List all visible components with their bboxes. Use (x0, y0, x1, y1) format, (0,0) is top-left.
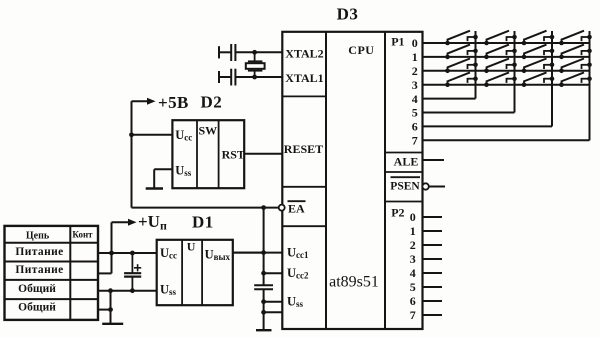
svg-text:Ucc2: Ucc2 (287, 266, 309, 281)
D3 left pin-column divider (325, 32, 327, 329)
wire ALE stub (423, 159, 445, 161)
+5V arrowhead (147, 98, 156, 105)
wire P2.1 stub (423, 230, 443, 232)
svg-text:CPU: CPU (348, 43, 374, 57)
svg-text:0: 0 (412, 36, 418, 50)
svg-text:Uвых: Uвых (205, 247, 231, 262)
table row line (5, 261, 99, 263)
wire +5V arrow stem (132, 100, 150, 102)
D1 inner divider 2 (201, 240, 203, 305)
node C3 bottom junction (130, 288, 135, 293)
wire P2.4 stub (423, 272, 443, 274)
node common row 2 junction (108, 307, 113, 312)
D3 left column divider below EA (282, 225, 326, 227)
svg-text:Uss: Uss (175, 163, 192, 178)
svg-text:+5В: +5В (158, 93, 189, 112)
svg-text:SW: SW (199, 124, 218, 138)
table column divider (69, 226, 71, 320)
wire row P1.0 to key matrix (423, 42, 590, 44)
key switch S7 (row P1.1, col 3) (522, 45, 555, 60)
wire Ucc1 pin (233, 252, 282, 254)
table row line (5, 279, 99, 281)
capacitor C1 plates (230, 44, 232, 61)
table row line (5, 298, 99, 300)
svg-text:Цепь: Цепь (26, 230, 50, 241)
svg-text:7: 7 (410, 308, 416, 322)
wire column bus 3 (551, 31, 553, 126)
svg-text:RESET: RESET (284, 142, 323, 156)
wire P2.6 stub (423, 300, 443, 302)
table row line (5, 242, 99, 244)
svg-text:P2: P2 (391, 206, 404, 220)
svg-text:Ucc: Ucc (160, 246, 177, 261)
svg-text:RST: RST (222, 148, 245, 162)
svg-text:6: 6 (412, 120, 418, 134)
wire supply row 1 (Питание) to D1 Ucc (98, 252, 157, 254)
crystal ZQ1 body (246, 63, 265, 69)
wire power rail vertical (upper) (263, 208, 265, 286)
key switch S6 (row P1.1, col 2) (484, 45, 517, 60)
wire D2 Ucc to +5V rail (132, 134, 173, 136)
key switch S5 (row P1.1, col 1) (445, 45, 478, 60)
crystal ZQ1 top plate (248, 60, 263, 62)
svg-text:at89s51: at89s51 (329, 274, 379, 291)
svg-text:1: 1 (410, 224, 416, 238)
svg-text:3: 3 (412, 78, 418, 92)
svg-text:EA: EA (288, 202, 305, 216)
wire Uss pin upper (264, 301, 283, 303)
svg-text:D2: D2 (201, 93, 223, 112)
svg-text:5: 5 (412, 106, 418, 120)
wire column bus 2 (514, 31, 516, 113)
D2 inner divider 1 (196, 120, 198, 188)
svg-text:Конт: Конт (72, 230, 93, 240)
D3 right column divider above ALE (385, 152, 423, 154)
node Uvyh/Ucc1 junction (261, 250, 266, 255)
C2 common terminal bar (218, 71, 220, 83)
key switch S12 (row P1.2, col 4) (559, 59, 592, 74)
wire row P1.4 column return (423, 98, 476, 100)
wire P2.0 stub (423, 216, 443, 218)
wire P2.3 stub (423, 258, 443, 260)
wire PSEN stub (429, 186, 445, 188)
svg-text:Ucc1: Ucc1 (287, 246, 309, 261)
connector table outline (5, 226, 99, 320)
wire row P1.5 column return (423, 112, 515, 114)
svg-text:Питание: Питание (15, 264, 63, 276)
svg-text:5: 5 (410, 280, 416, 294)
key switch S8 (row P1.1, col 4) (559, 45, 592, 60)
wire row P1.1 to key matrix (423, 56, 590, 58)
capacitor C3 plus sign (134, 267, 141, 269)
wire common row 1 (Общий) to D1 Uss (98, 290, 157, 292)
key switch S1 (row P1.0, col 1) (445, 31, 478, 46)
IC D3 CPU at89s51 box outline (282, 32, 422, 329)
key switch S13 (row P1.3, col 1) (445, 72, 478, 87)
node common vertical junction (108, 288, 113, 293)
key switch S14 (row P1.3, col 2) (484, 72, 517, 87)
crystal ZQ1 bottom lead (254, 71, 256, 77)
svg-text:Общий: Общий (18, 302, 56, 314)
wire C1 to common (219, 51, 231, 53)
crystal ZQ1 top lead (254, 52, 256, 61)
wire common row 2 (Общий) (98, 309, 111, 311)
svg-text:7: 7 (412, 134, 418, 148)
capacitor C3 plate 1 (124, 272, 141, 274)
wire row P1.3 to key matrix (423, 84, 590, 86)
IC D2 box outline (172, 120, 244, 188)
svg-text:Ucc: Ucc (175, 128, 192, 143)
D3 right column divider below ALE (385, 171, 423, 173)
wire P2.7 stub (423, 314, 443, 316)
wire D2 Uss down (153, 169, 155, 187)
svg-text:ALE: ALE (394, 155, 419, 169)
key switch S11 (row P1.2, col 3) (522, 59, 555, 74)
wire column bus 1 (475, 31, 477, 99)
svg-text:D1: D1 (192, 212, 214, 231)
D3 left column divider under XTAL1 (282, 95, 326, 97)
node Uss upper junction (261, 299, 266, 304)
wire D1 Uvyh output (233, 252, 264, 254)
wire power rail vertical (lower) (263, 289, 265, 329)
svg-text:4: 4 (412, 92, 418, 106)
svg-text:Общий: Общий (18, 283, 56, 295)
D3 right pin-column divider (384, 32, 386, 329)
svg-text:2: 2 (410, 238, 416, 252)
wire D2 Uss (154, 168, 172, 170)
wire P2.5 stub (423, 286, 443, 288)
IC D1 box outline (157, 240, 233, 305)
node +Up junction (109, 251, 114, 256)
wire Ucc2 pin (264, 272, 283, 274)
ground bar under power rail (256, 329, 272, 331)
svg-text:Питание: Питание (15, 246, 63, 258)
D3 right column divider below PSEN (385, 201, 423, 203)
svg-text:6: 6 (410, 294, 416, 308)
D3 left column divider above EA (282, 186, 326, 188)
svg-text:2: 2 (412, 64, 418, 78)
wire supply row 2 (Питание) (98, 272, 112, 274)
key switch S16 (row P1.3, col 4) (559, 72, 592, 87)
key switch S10 (row P1.2, col 2) (484, 59, 517, 74)
node Ucc2 junction (261, 271, 266, 276)
svg-text:0: 0 (410, 210, 416, 224)
D1 inner divider 1 (181, 240, 183, 305)
D2 inner divider 2 (218, 120, 220, 188)
inversion circle on EA pin (279, 205, 285, 211)
wire column bus 4 (589, 31, 591, 140)
svg-text:XTAL2: XTAL2 (285, 47, 323, 61)
key switch S9 (row P1.2, col 1) (445, 59, 478, 74)
crystal ZQ1 bottom plate (248, 70, 263, 72)
svg-text:D3: D3 (337, 4, 359, 23)
svg-text:P1: P1 (391, 34, 404, 48)
svg-text:+Uп: +Uп (138, 212, 167, 233)
+Up arrowhead (128, 219, 137, 226)
wire RST to RESET (244, 153, 282, 155)
node Uss lower junction (261, 310, 266, 315)
svg-text:XTAL1: XTAL1 (285, 71, 323, 85)
node XTAL2/ZQ1 junction (252, 50, 257, 55)
wire +Up arrow stem (112, 221, 131, 223)
capacitor C2 plates (230, 69, 232, 86)
node EA / power-rail junction (261, 205, 266, 210)
ground bar under D2 (146, 187, 163, 189)
node XTAL1/ZQ1 junction (252, 75, 257, 80)
key switch S3 (row P1.0, col 3) (522, 31, 555, 46)
capacitor C3 top lead (131, 253, 133, 273)
wire P2.2 stub (423, 244, 443, 246)
wire +5V rail vertical (131, 101, 133, 207)
wire row P1.7 column return (423, 139, 590, 141)
svg-text:1: 1 (412, 50, 418, 64)
wire XTAL2 pin (235, 51, 282, 53)
node +5V/Ucc junction (129, 132, 134, 137)
svg-text:Uss: Uss (287, 295, 304, 310)
svg-text:Uss: Uss (160, 282, 177, 297)
wire row P1.2 to key matrix (423, 70, 590, 72)
capacitor C3 bottom lead (131, 277, 133, 291)
C1 common terminal bar (218, 46, 220, 58)
key switch S4 (row P1.0, col 4) (559, 31, 592, 46)
wire EA from +5V rail (132, 207, 279, 209)
svg-text:U: U (187, 240, 196, 254)
svg-text:PSEN: PSEN (390, 180, 420, 192)
wire Uss pin lower (264, 311, 283, 313)
svg-text:3: 3 (410, 252, 416, 266)
wire XTAL1 pin (235, 76, 282, 78)
wire common vertical (110, 291, 112, 323)
wire +Up vertical (111, 222, 113, 273)
wire C2 to common (219, 76, 231, 78)
capacitor C3 plate 2 (124, 276, 141, 278)
svg-text:4: 4 (410, 266, 416, 280)
capacitor C4 plates (decoupling at CPU) (254, 284, 273, 286)
key switch S15 (row P1.3, col 3) (522, 72, 555, 87)
wire row P1.6 column return (423, 125, 553, 127)
node C3 top junction (130, 251, 135, 256)
ground bar under table wiring (102, 323, 123, 325)
key switch S2 (row P1.0, col 2) (484, 31, 517, 46)
inversion circle on PSEN pin (422, 183, 428, 189)
